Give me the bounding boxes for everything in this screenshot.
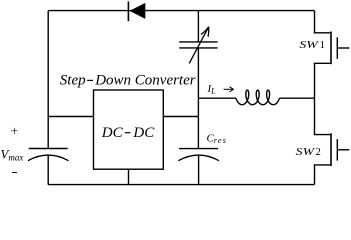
- wire DC-DC output: [163, 116, 198, 118]
- transistor SW2 source stub: [314, 164, 331, 166]
- wire DC-DC input: [48, 116, 93, 118]
- svg-text:1: 1: [320, 39, 325, 51]
- label Step-Down Converter: [60, 73, 196, 89]
- wire box bottom to rail: [128, 169, 130, 184]
- svg-text:DC: DC: [101, 125, 124, 141]
- transistor SW2 channel bar: [330, 133, 332, 166]
- label IL current: [207, 83, 217, 96]
- wire left vertical: [47, 11, 49, 149]
- wire bottom rail: [48, 184, 314, 186]
- transistor SW1 source stub: [314, 62, 331, 64]
- transistor SW1 drain stub: [314, 32, 331, 34]
- label - polarity: [12, 172, 17, 174]
- transistor SW1 gate bar: [336, 37, 338, 59]
- transistor SW2 gate lead: [337, 149, 349, 151]
- wire top rail: [48, 10, 314, 12]
- svg-text:Cres: Cres: [207, 132, 228, 145]
- wire mid vertical top: [197, 11, 199, 42]
- transistor SW1 channel bar: [330, 32, 332, 65]
- converter box U1: [94, 90, 164, 169]
- transistor SW1 gate lead: [337, 47, 349, 49]
- variable capacitor bottom plate: [179, 47, 217, 49]
- svg-text:Vmax: Vmax: [1, 148, 24, 163]
- wire right vertical top: [314, 11, 316, 33]
- wire inductor right lead: [279, 97, 314, 99]
- wire inductor left lead: [198, 97, 236, 99]
- svg-text:IL: IL: [207, 83, 217, 96]
- label SW1: [299, 39, 325, 51]
- capacitor Cres curved plate: [178, 155, 219, 161]
- transistor SW2 drain stub: [314, 134, 331, 136]
- svg-text:2: 2: [316, 146, 321, 158]
- variable capacitor top plate: [179, 41, 217, 43]
- label Vmax: [1, 148, 24, 163]
- capacitor Cres top plate: [179, 148, 218, 150]
- svg-text:+: +: [11, 123, 18, 138]
- wire right vertical bottom: [314, 165, 316, 185]
- label Cres: [207, 132, 228, 145]
- capacitor Vmax curved plate: [28, 155, 69, 161]
- label IL arrow: [224, 87, 234, 92]
- label DC-DC: [101, 125, 155, 141]
- svg-text:SW: SW: [299, 39, 319, 51]
- inductor L1 coil: [236, 90, 279, 105]
- variable capacitor arrow: [189, 27, 209, 64]
- capacitor Vmax top plate: [29, 148, 68, 150]
- label + polarity: [11, 123, 18, 138]
- wire mid vertical middle: [197, 48, 199, 149]
- wire Vmax to bottom rail: [47, 155, 49, 184]
- diode D1 cathode bar: [127, 1, 129, 21]
- label SW2: [296, 146, 321, 158]
- diode D1 triangle: [130, 3, 146, 19]
- svg-text:Step: Step: [60, 73, 86, 89]
- wire Cres to bottom rail: [198, 155, 200, 184]
- transistor SW2 gate bar: [336, 139, 338, 161]
- svg-text:SW: SW: [296, 146, 316, 158]
- svg-text:DC: DC: [132, 125, 155, 141]
- wire right vertical middle: [314, 63, 316, 134]
- svg-text:Down Converter: Down Converter: [94, 73, 196, 89]
